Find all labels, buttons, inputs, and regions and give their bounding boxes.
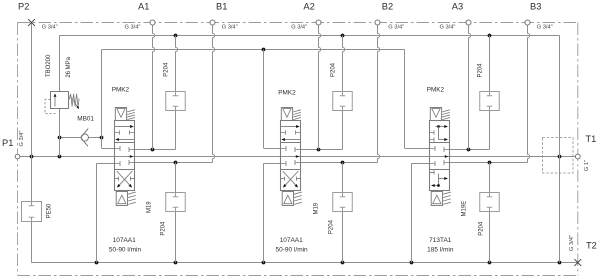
- svg-text:B3: B3: [530, 2, 541, 12]
- svg-text:P204: P204: [163, 62, 169, 77]
- svg-text:P1: P1: [2, 138, 13, 148]
- svg-text:P204: P204: [478, 221, 484, 236]
- svg-text:G 3/4": G 3/4": [125, 25, 141, 31]
- svg-text:50-90 l/min: 50-90 l/min: [109, 247, 142, 254]
- svg-text:50-90 l/min: 50-90 l/min: [276, 247, 309, 254]
- svg-text:P204: P204: [329, 219, 335, 234]
- svg-text:P204: P204: [161, 221, 167, 236]
- svg-text:G 3/4": G 3/4": [388, 25, 404, 31]
- svg-text:G 3/4": G 3/4": [569, 235, 575, 251]
- svg-text:B2: B2: [382, 2, 393, 12]
- svg-text:PMK2: PMK2: [427, 86, 445, 93]
- svg-text:713TA1: 713TA1: [429, 237, 452, 244]
- svg-text:P204: P204: [330, 62, 336, 77]
- svg-text:T2: T2: [586, 241, 597, 251]
- svg-text:107AA1: 107AA1: [280, 237, 304, 244]
- svg-text:B1: B1: [216, 2, 227, 12]
- svg-text:107AA1: 107AA1: [113, 237, 137, 244]
- svg-text:G 3/4": G 3/4": [222, 25, 238, 31]
- svg-text:G 3/4": G 3/4": [291, 25, 307, 31]
- svg-text:P204: P204: [478, 63, 484, 78]
- svg-text:TBO200: TBO200: [46, 54, 52, 77]
- svg-text:P2: P2: [18, 2, 29, 12]
- svg-text:M19: M19: [314, 202, 320, 214]
- svg-text:185 l/min: 185 l/min: [427, 247, 454, 254]
- svg-text:A1: A1: [138, 2, 149, 12]
- svg-text:A2: A2: [303, 2, 314, 12]
- svg-text:MB01: MB01: [77, 116, 94, 123]
- svg-text:PMK2: PMK2: [278, 90, 296, 97]
- svg-text:G 1": G 1": [584, 160, 590, 171]
- svg-text:26 MPa: 26 MPa: [66, 56, 72, 77]
- svg-text:M19E: M19E: [462, 201, 468, 217]
- svg-text:T1: T1: [586, 134, 597, 144]
- svg-text:PE50: PE50: [47, 203, 53, 218]
- svg-text:A3: A3: [452, 2, 463, 12]
- svg-text:G 3/4": G 3/4": [440, 25, 456, 31]
- svg-text:G 3/4": G 3/4": [42, 25, 58, 31]
- svg-text:G 3/4": G 3/4": [537, 25, 553, 31]
- svg-text:G 3/4": G 3/4": [19, 131, 25, 147]
- svg-text:PMK2: PMK2: [112, 86, 130, 93]
- svg-text:M19: M19: [146, 201, 152, 213]
